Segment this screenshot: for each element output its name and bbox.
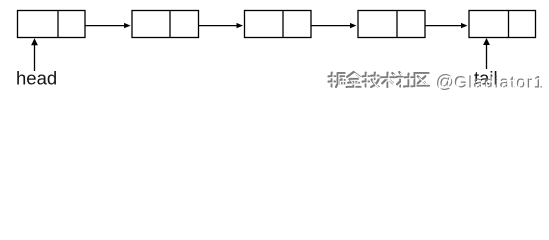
node 5 box	[469, 11, 536, 38]
watermark gray layer	[329, 72, 545, 92]
tail label	[474, 68, 498, 89]
wire arrow node4 to node5	[425, 23, 468, 28]
node 1 box	[18, 11, 86, 38]
wire arrow node1 to node2	[85, 23, 131, 28]
svg-text:head: head	[16, 68, 57, 89]
head pointer arrow	[31, 38, 38, 71]
node 4 box	[358, 11, 425, 38]
watermark emboss white layer	[330, 73, 546, 93]
tail pointer arrow	[483, 38, 490, 69]
node 3 box	[245, 11, 312, 38]
head label	[16, 68, 57, 89]
node 2 box	[132, 11, 199, 38]
wire arrow node3 to node4	[311, 23, 357, 28]
wire arrow node2 to node3	[199, 23, 244, 28]
